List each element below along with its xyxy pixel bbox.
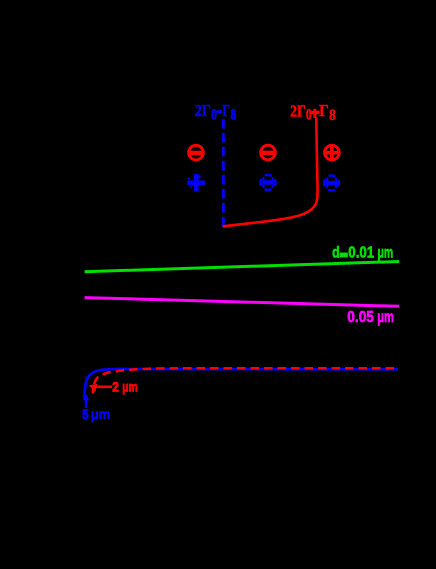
svg-text:μm: μm xyxy=(377,309,394,326)
label 2G0+G8 (red) xyxy=(290,101,336,124)
blue arrow to 5um curve xyxy=(83,394,90,408)
blue curve 5um (lower panel) xyxy=(84,369,398,398)
blue dashed-circle bar symbol 1 xyxy=(261,175,276,190)
label 2 um (red) xyxy=(112,378,138,394)
svg-text:0.05: 0.05 xyxy=(347,309,374,326)
circled plus symbol (red) xyxy=(325,145,340,160)
svg-text:d: d xyxy=(332,245,340,262)
circled minus symbol 2 (red) xyxy=(261,145,276,160)
label 2G0-G8 (blue) xyxy=(195,101,237,123)
svg-text:μm: μm xyxy=(378,245,394,262)
red dashed curve 2um (lower panel) xyxy=(93,368,398,393)
asymptote dashed blue vertical line xyxy=(222,119,225,227)
svg-text:2Γ: 2Γ xyxy=(290,101,306,120)
label 5 um (blue) xyxy=(82,406,110,422)
label 0.05 um (magenta) xyxy=(347,309,394,326)
magenta curve 0.05um xyxy=(85,298,399,307)
svg-text:2: 2 xyxy=(112,378,119,394)
svg-text:8: 8 xyxy=(231,106,237,123)
svg-text:0.01: 0.01 xyxy=(348,245,374,262)
svg-text:0: 0 xyxy=(306,107,312,124)
svg-text:0: 0 xyxy=(211,106,217,123)
red arrow to 2um curve xyxy=(89,384,112,392)
blue cross (4-arrow) symbol xyxy=(187,174,205,192)
svg-text:2Γ: 2Γ xyxy=(195,101,211,120)
green curve d=0.01um xyxy=(85,262,399,272)
svg-text:8: 8 xyxy=(329,107,336,124)
svg-text:Γ: Γ xyxy=(319,101,329,120)
svg-text:μm: μm xyxy=(91,406,111,422)
red resonance curve (upper panel) xyxy=(223,118,318,227)
svg-text:5: 5 xyxy=(82,406,89,422)
svg-text:μm: μm xyxy=(122,378,138,394)
svg-text:Γ: Γ xyxy=(222,101,230,120)
label d=0.01 um (green) xyxy=(332,245,393,262)
circled minus symbol 1 (red) xyxy=(189,145,204,160)
blue dashed-circle bar symbol 2 xyxy=(324,176,339,191)
